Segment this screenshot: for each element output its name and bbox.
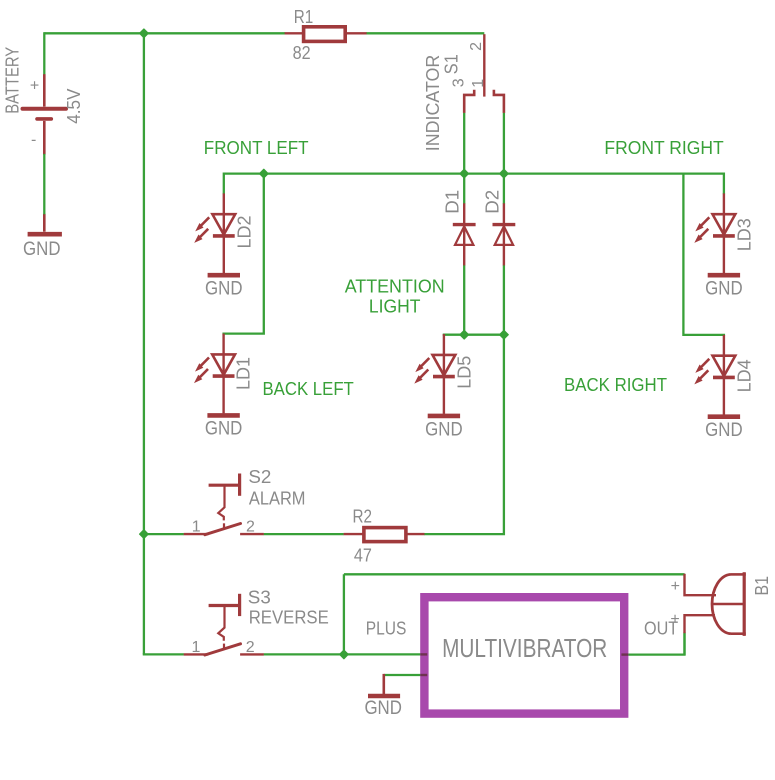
wire drop to LD2	[223, 173, 225, 195]
multivibrator OUT pin stub	[621, 653, 628, 655]
wire S3 pin2 to multivibrator PLUS	[264, 653, 421, 655]
resistor R2 (47 ohm)	[344, 528, 425, 542]
wire left rail (battery node down to S3)	[143, 32, 145, 654]
svg-text:GND: GND	[705, 279, 743, 300]
wire S1 pin3 drop to front rail	[463, 113, 465, 174]
svg-text:D1: D1	[443, 190, 463, 214]
svg-text:BATTERY: BATTERY	[3, 47, 23, 114]
S1 contact pin 1	[494, 90, 504, 113]
svg-text:-: -	[31, 131, 36, 148]
battery 4.5V	[23, 74, 67, 232]
svg-text:R2: R2	[353, 506, 373, 526]
LED LD2	[194, 193, 254, 273]
node junction attention rail / D2 / R2 riser	[500, 330, 509, 339]
ground GND under LD3	[705, 275, 743, 300]
svg-text:4.5V: 4.5V	[64, 89, 84, 124]
svg-text:INDICATOR: INDICATOR	[423, 55, 443, 152]
node junction front rail / back-left branch	[259, 169, 268, 178]
LED LD1	[194, 334, 254, 414]
svg-text:BACK RIGHT: BACK RIGHT	[564, 375, 667, 395]
svg-text:+: +	[671, 578, 680, 595]
buzzer B1 body	[712, 572, 746, 636]
node junction front rail / D1	[460, 169, 469, 178]
wire S2 row left segment	[144, 533, 184, 535]
wire multivibrator GND pin	[384, 674, 421, 676]
wire R2 riser from attention rail down to R2 output	[424, 335, 504, 534]
ground GND under LD5	[425, 416, 463, 440]
svg-text:S2: S2	[248, 467, 271, 487]
wire D2 bottom segment to attention rail	[503, 265, 505, 335]
wire D2 top segment	[503, 174, 505, 204]
wire D1 top segment	[463, 174, 465, 204]
resistor R1 (82 ohm)	[285, 27, 367, 42]
svg-text:BACK LEFT: BACK LEFT	[263, 379, 354, 399]
svg-text:2: 2	[468, 42, 485, 51]
wire drop to LD3	[723, 173, 725, 195]
svg-text:2: 2	[246, 519, 255, 536]
svg-text:REVERSE: REVERSE	[249, 607, 329, 627]
multivibrator GND pin stub	[420, 674, 427, 676]
svg-text:1: 1	[191, 639, 200, 656]
svg-text:FRONT LEFT: FRONT LEFT	[204, 138, 309, 158]
node junction S3 output / loop riser	[340, 650, 349, 659]
svg-text:+: +	[670, 611, 679, 628]
wire battery positive stem	[43, 32, 45, 74]
ground GND under LD1	[205, 415, 243, 439]
wire top rail from R1 to S1 corner, down to S1 pin 2	[366, 32, 484, 34]
svg-text:82: 82	[293, 43, 311, 63]
svg-text:ATTENTION: ATTENTION	[345, 277, 445, 297]
node junction front rail / D2	[500, 169, 509, 178]
svg-text:GND: GND	[205, 419, 243, 440]
LED LD5	[414, 334, 474, 414]
svg-text:GND: GND	[364, 698, 402, 719]
wire S1 pin1 drop to front rail	[503, 113, 505, 174]
wire OUT from multivibrator to buzzer	[628, 632, 685, 654]
ground GND under LD2	[205, 275, 243, 300]
svg-text:3: 3	[450, 78, 467, 87]
node junction battery/top-rail	[140, 29, 149, 38]
wire top loop across to buzzer plus	[344, 573, 685, 575]
wire S2 pin2 to R2	[264, 533, 344, 535]
buzzer B1 plus lead	[685, 574, 717, 595]
wire D1 bottom segment to attention rail	[463, 265, 465, 335]
svg-text:47: 47	[354, 546, 372, 566]
wire front rail FRONT LEFT to FRONT RIGHT	[224, 172, 724, 174]
S1 contact pin 3	[464, 90, 474, 113]
switch S1 INDICATOR (SPDT) pole from pin 2	[483, 34, 485, 96]
svg-text:S1: S1	[442, 54, 462, 74]
svg-text:2: 2	[246, 639, 255, 656]
LED LD4	[694, 335, 754, 415]
svg-text:PLUS: PLUS	[366, 619, 407, 639]
ground GND at multivibrator	[364, 674, 402, 719]
switch S3 (REVERSE) pushbutton	[184, 594, 264, 655]
svg-text:B1: B1	[752, 576, 772, 596]
svg-text:FRONT RIGHT: FRONT RIGHT	[604, 138, 723, 158]
buzzer B1 out lead	[685, 615, 716, 633]
wire back-left branch down and to LD1	[224, 174, 264, 335]
ground GND under LD4	[705, 417, 743, 441]
svg-text:LD1: LD1	[234, 357, 254, 390]
svg-text:1: 1	[192, 519, 201, 536]
svg-text:ALARM: ALARM	[249, 489, 306, 509]
multivibrator PLUS pin stub	[420, 653, 427, 655]
switch S2 (ALARM) pushbutton	[184, 474, 264, 535]
svg-text:1: 1	[470, 79, 487, 88]
node junction left rail / S2 row	[140, 530, 149, 539]
ground GND below battery	[23, 234, 62, 260]
svg-text:GND: GND	[205, 279, 243, 300]
svg-text:LD3: LD3	[734, 218, 754, 251]
svg-text:GND: GND	[23, 239, 61, 260]
svg-text:LIGHT: LIGHT	[369, 297, 421, 317]
wire attention rail to LD5	[444, 335, 504, 336]
diode D1	[443, 190, 476, 266]
svg-text:GND: GND	[705, 420, 743, 441]
wire back-right branch down and to LD4	[683, 173, 724, 337]
svg-text:MULTIVIBRATOR: MULTIVIBRATOR	[442, 633, 607, 663]
node junction attention rail / D1	[460, 330, 469, 339]
diode D2	[483, 190, 516, 266]
wire battery negative segment	[43, 154, 45, 214]
wire buzzer out drop to OUT wire	[683, 633, 685, 655]
wire top rail from battery to R1	[44, 32, 285, 34]
svg-text:LD4: LD4	[734, 359, 754, 392]
svg-text:R1: R1	[294, 7, 314, 27]
LED LD3	[694, 193, 754, 273]
svg-text:LD5: LD5	[454, 356, 474, 389]
svg-text:S3: S3	[248, 587, 271, 607]
svg-text:D2: D2	[483, 190, 503, 214]
wire S3 row left segment	[144, 653, 184, 654]
wire loop riser up from S3 output	[343, 574, 345, 654]
multivibrator module box	[424, 597, 624, 713]
svg-text:LD2: LD2	[234, 216, 254, 249]
svg-text:GND: GND	[425, 419, 463, 440]
svg-text:+: +	[30, 77, 39, 94]
